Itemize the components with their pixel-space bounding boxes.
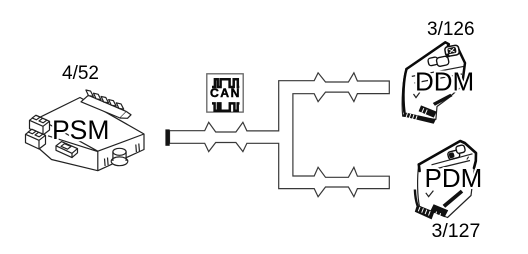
- svg-text:4/52: 4/52: [62, 63, 99, 84]
- svg-text:PDM: PDM: [425, 163, 483, 193]
- svg-text:PSM: PSM: [52, 115, 109, 145]
- svg-text:3/127: 3/127: [432, 220, 481, 242]
- svg-text:CAN: CAN: [210, 86, 241, 100]
- svg-text:DDM: DDM: [415, 67, 474, 97]
- svg-text:3/126: 3/126: [427, 19, 475, 40]
